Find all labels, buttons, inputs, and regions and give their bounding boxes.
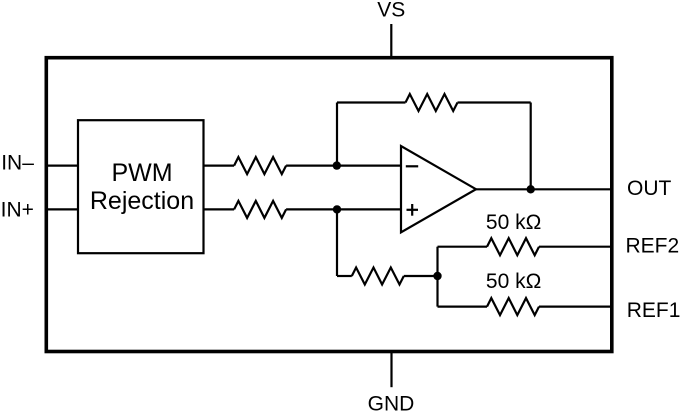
- wire REF2 resistor to pin: [539, 246, 610, 248]
- svg-text:REF1: REF1: [627, 299, 680, 322]
- wire PWM block to input resistor (plus path): [204, 208, 235, 210]
- wire PWM block to input resistor (minus path): [204, 165, 235, 167]
- junction dot ref node: [433, 272, 441, 280]
- wire IN+ to PWM block: [46, 208, 79, 210]
- svg-text:PWM: PWM: [111, 159, 172, 187]
- op-amp: [401, 146, 476, 232]
- feedback resistor: [406, 94, 458, 111]
- svg-text:GND: GND: [368, 393, 415, 413]
- wire ref node up to REF2 branch: [436, 247, 438, 276]
- svg-text:OUT: OUT: [627, 177, 672, 200]
- output wire: [476, 188, 610, 190]
- svg-text:REF2: REF2: [626, 235, 680, 258]
- wire ref node down to REF1 branch: [436, 276, 438, 307]
- svg-text:IN–: IN–: [1, 151, 34, 174]
- wire resistor to minus node: [286, 165, 337, 167]
- wire plus node to op-amp: [337, 208, 401, 210]
- wire to REF1 resistor: [438, 306, 488, 308]
- feedback wire up from minus node: [336, 103, 338, 166]
- divider resistor: [352, 268, 404, 285]
- junction dot plus node: [333, 205, 341, 213]
- GND pin wire: [390, 352, 392, 388]
- resistor input plus: [234, 201, 286, 218]
- resistor input minus: [234, 157, 286, 174]
- wire to REF2 resistor: [438, 246, 488, 248]
- feedback top wire left: [337, 101, 406, 103]
- feedback wire down to output: [530, 103, 532, 190]
- wire minus node to op-amp: [337, 165, 401, 167]
- wire REF1 resistor to pin: [539, 306, 610, 308]
- svg-text:Rejection: Rejection: [90, 187, 194, 215]
- wire to divider resistor: [337, 275, 352, 277]
- svg-text:50 kΩ: 50 kΩ: [486, 211, 541, 234]
- resistor 50k REF2: [487, 238, 539, 255]
- svg-text:50 kΩ: 50 kΩ: [486, 270, 541, 293]
- junction dot minus node: [333, 161, 341, 169]
- junction dot output node: [527, 185, 535, 193]
- wire divider resistor to ref node: [404, 275, 438, 277]
- resistor 50k REF1: [487, 298, 539, 315]
- wire resistor to plus node: [286, 208, 337, 210]
- svg-text:IN+: IN+: [1, 199, 34, 222]
- svg-text:VS: VS: [377, 0, 405, 22]
- feedback top wire right: [458, 101, 531, 103]
- PWM Rejection block: [78, 120, 204, 253]
- IC boundary box: [46, 58, 612, 352]
- VS pin wire: [390, 24, 392, 58]
- wire down from plus node to divider: [336, 209, 338, 276]
- wire IN- to PWM block: [46, 165, 79, 167]
